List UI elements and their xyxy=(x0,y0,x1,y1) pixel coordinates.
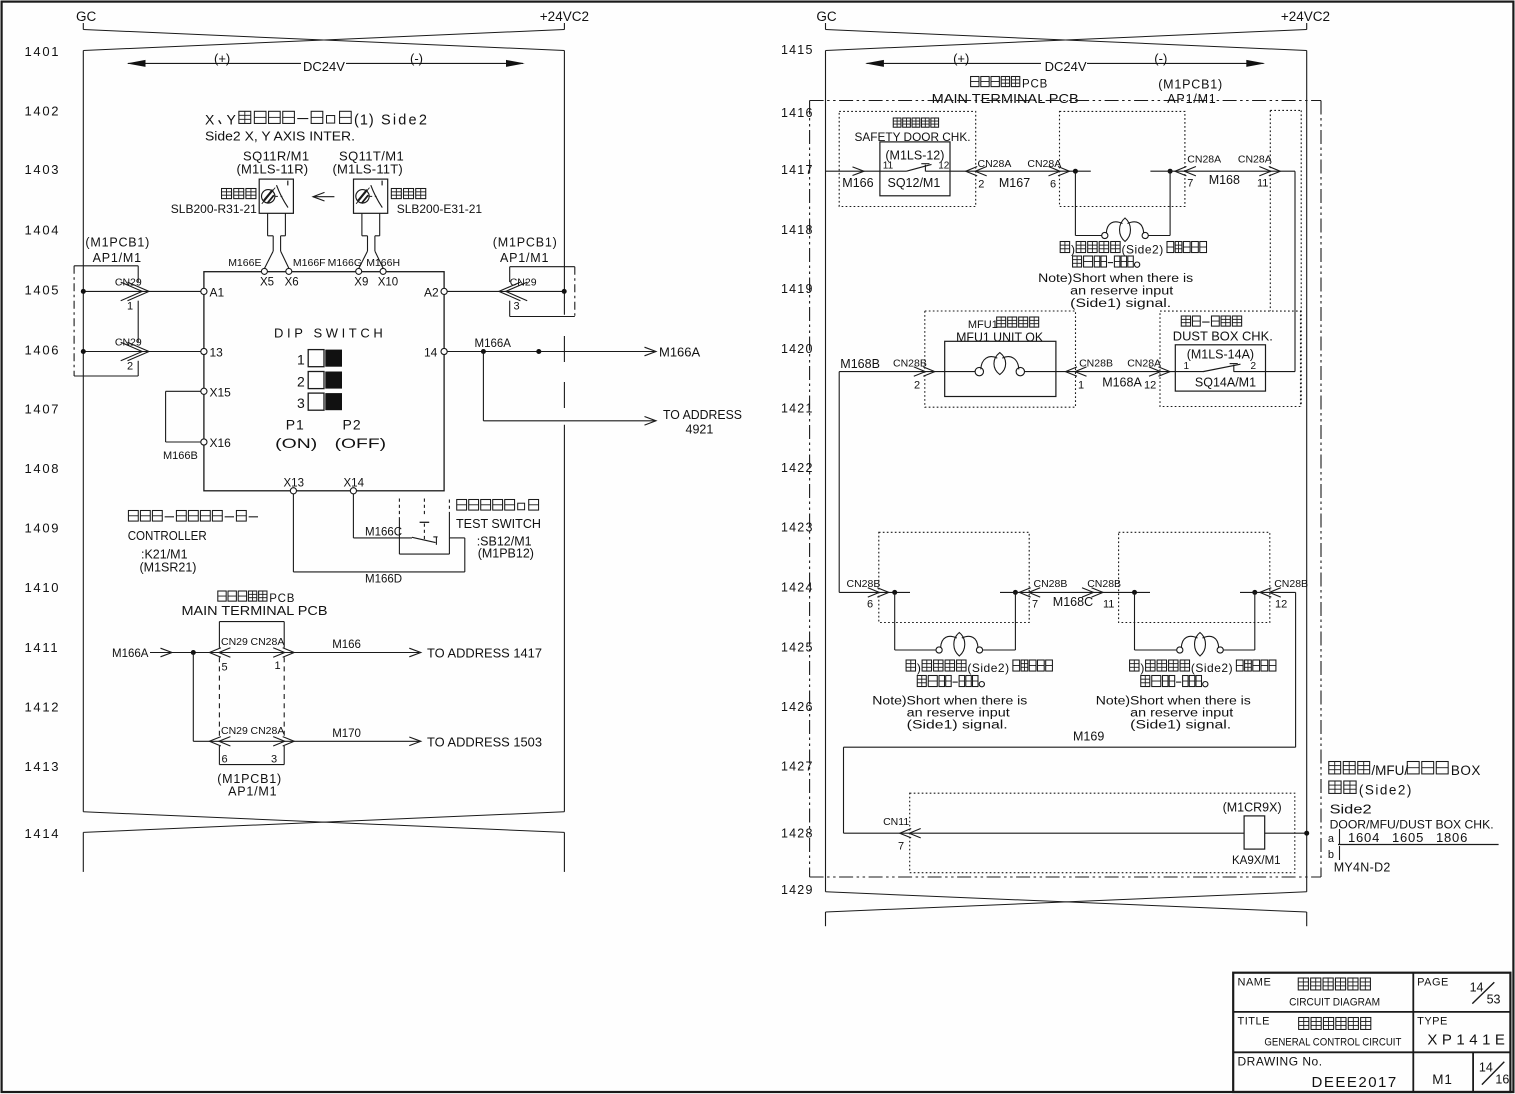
svg-text:CN28B: CN28B xyxy=(893,358,927,370)
svg-text:A1: A1 xyxy=(210,286,225,300)
svg-text:DC24V: DC24V xyxy=(1045,59,1087,74)
svg-text:1605: 1605 xyxy=(1392,830,1424,845)
svg-text:X9: X9 xyxy=(354,277,368,289)
device box reserve input Side2 (dotted, row 1416) xyxy=(1060,111,1185,206)
terminal X13 xyxy=(290,488,296,494)
svg-text:7: 7 xyxy=(1032,599,1038,611)
svg-text:M166B: M166B xyxy=(163,450,198,462)
connector CN28A pin 11 xyxy=(1259,167,1271,176)
svg-text:CN28B: CN28B xyxy=(1274,578,1308,590)
terminal X16 xyxy=(201,439,207,445)
svg-text:Side2 X, Y AXIS INTER.: Side2 X, Y AXIS INTER. xyxy=(205,130,355,144)
svg-text:(Side1) signal.: (Side1) signal. xyxy=(1070,298,1171,310)
wire +24VC2 bus stub (left sheet) xyxy=(563,23,565,30)
svg-text:1425: 1425 xyxy=(781,641,814,655)
device box relay circuit (dotted, row 1428) xyxy=(910,793,1295,873)
connector CN29 pin 1 xyxy=(121,282,143,301)
node reserve A right xyxy=(1013,590,1018,595)
svg-text:X16: X16 xyxy=(210,436,232,450)
terminal X15 xyxy=(201,388,207,394)
svg-text:6: 6 xyxy=(1050,179,1056,191)
svg-text:3: 3 xyxy=(271,754,277,766)
wire GC bus stub (right sheet) xyxy=(825,23,827,30)
svg-text:1: 1 xyxy=(275,660,281,672)
connector CN28B pin 11 xyxy=(1082,588,1094,597)
svg-text:GC: GC xyxy=(816,9,837,24)
svg-text:/MFU/: /MFU/ xyxy=(1371,763,1408,778)
device boundary dotted column right xyxy=(1270,109,1301,111)
svg-text:1404: 1404 xyxy=(25,223,61,238)
svg-text:NAME: NAME xyxy=(1238,977,1272,989)
svg-text:M166F: M166F xyxy=(293,257,326,269)
label test switch (Japanese) xyxy=(457,500,467,511)
wire SQ14A to vertical riser xyxy=(1266,371,1296,373)
connector CN28A pin 2 xyxy=(975,167,987,176)
svg-text:CN28B: CN28B xyxy=(1079,358,1113,370)
junction node row 1411 xyxy=(191,650,196,655)
dip switch 1 xyxy=(308,350,324,367)
svg-text:CIRCUIT DIAGRAM: CIRCUIT DIAGRAM xyxy=(1289,997,1380,1009)
svg-text:P1: P1 xyxy=(286,417,305,433)
node reserve B left xyxy=(1132,590,1137,595)
svg-text:1: 1 xyxy=(297,352,305,368)
svg-text:(+): (+) xyxy=(953,51,969,66)
svg-text:an reserve input: an reserve input xyxy=(1130,708,1234,720)
terminal X5 xyxy=(261,268,267,274)
svg-text:+24VC2: +24VC2 xyxy=(540,9,589,24)
svg-text:X14: X14 xyxy=(344,478,365,490)
svg-text:MY4N-D2: MY4N-D2 xyxy=(1334,861,1391,875)
svg-text:1405: 1405 xyxy=(25,283,61,298)
svg-text:b: b xyxy=(1328,849,1334,861)
connector CN29 pin 6 xyxy=(219,737,231,746)
wire row 1428 to CN11 xyxy=(844,832,910,834)
svg-text:3: 3 xyxy=(297,395,305,411)
svg-text:1: 1 xyxy=(1078,380,1084,392)
wire KA9X to (-) rail xyxy=(1265,832,1307,834)
junction node M166A second xyxy=(536,349,541,354)
wire CN11 to relay coil KA9X xyxy=(910,832,1244,834)
svg-text:SQ14A/M1: SQ14A/M1 xyxy=(1195,376,1256,390)
svg-text:1426: 1426 xyxy=(781,700,814,714)
wire M170 to address 1503 xyxy=(284,740,419,742)
svg-text:12: 12 xyxy=(938,161,950,172)
wire bus crossover bottom (left sheet) xyxy=(83,812,564,833)
svg-text:TEST SWITCH: TEST SWITCH xyxy=(456,517,541,531)
wire rail to A1 (row 1405) xyxy=(83,290,201,292)
wire (-) power rail right (left sheet) with dashed crossing section xyxy=(563,51,565,315)
svg-text:(M1LS-11R): (M1LS-11R) xyxy=(237,162,309,177)
terminal A2 xyxy=(441,288,447,294)
note reserve input block B (Japanese) xyxy=(1130,660,1139,671)
connector CN29 pin 2 xyxy=(121,342,143,361)
svg-text:CN28A: CN28A xyxy=(1027,158,1061,170)
svg-text:7: 7 xyxy=(898,841,904,853)
svg-text:GC: GC xyxy=(76,9,97,24)
wire M169 xyxy=(1295,592,1297,747)
wire bottom continuation stubs (right sheet) xyxy=(825,912,827,926)
svg-text:CN29: CN29 xyxy=(221,636,248,648)
wire SQ12 to reserve connector xyxy=(950,170,1091,172)
device box reserve input B (dotted, row 1423) xyxy=(1119,532,1270,622)
svg-text:(M1PCB1): (M1PCB1) xyxy=(85,236,150,250)
test switch SB12/M1 symbol xyxy=(398,499,400,518)
svg-text:CN28A: CN28A xyxy=(251,636,285,648)
device box MFU1 UNIT OK (dotted) xyxy=(925,311,1076,407)
svg-text:Side2: Side2 xyxy=(1330,803,1372,817)
limit switch SQ12/M1 box xyxy=(880,142,950,196)
svg-text:M166A: M166A xyxy=(112,648,149,660)
svg-text:(M1SR21): (M1SR21) xyxy=(140,561,197,575)
svg-text:1806: 1806 xyxy=(1436,830,1468,845)
svg-text:SLB200-R31-21: SLB200-R31-21 xyxy=(171,202,257,216)
svg-text:2: 2 xyxy=(1251,361,1257,372)
node reserve input right xyxy=(1168,169,1173,174)
svg-text:1421: 1421 xyxy=(781,402,814,416)
svg-text:1401: 1401 xyxy=(25,44,61,59)
svg-text:1408: 1408 xyxy=(25,461,61,476)
connector CN28B pin 2 xyxy=(914,367,926,376)
PCB bracket M1PCB1 left (rows 1405-1406) xyxy=(74,265,138,267)
svg-text:(ON): (ON) xyxy=(275,435,317,451)
connector CN11 pin 7 xyxy=(909,829,921,838)
svg-text:AP1/M1: AP1/M1 xyxy=(1167,92,1216,106)
svg-text:DC24V: DC24V xyxy=(303,59,345,74)
svg-text:TO ADDRESS: TO ADDRESS xyxy=(663,408,742,422)
wire +24VC2 bus stub (right sheet) xyxy=(1306,23,1308,30)
svg-text:AP1/M1: AP1/M1 xyxy=(228,785,277,799)
svg-text:14: 14 xyxy=(1470,981,1484,995)
svg-text:M168A: M168A xyxy=(1102,376,1142,390)
title block frame xyxy=(1233,973,1510,1092)
connector CN28B pin 6 xyxy=(868,588,880,597)
svg-text:(-): (-) xyxy=(1154,51,1167,66)
svg-text:M170: M170 xyxy=(332,728,361,740)
svg-text:XP141E: XP141E xyxy=(1427,1032,1509,1049)
svg-text:12: 12 xyxy=(1275,599,1287,611)
svg-text:1410: 1410 xyxy=(25,580,61,595)
terminal X6 xyxy=(286,268,292,274)
svg-text:1419: 1419 xyxy=(781,282,814,296)
label emitter (Japanese) for SQ11T xyxy=(391,189,401,199)
wire row 1424 left segment xyxy=(839,591,910,593)
wire branch to address 4921 xyxy=(482,352,484,421)
svg-text:11: 11 xyxy=(1257,178,1268,190)
svg-text:(OFF): (OFF) xyxy=(335,435,387,451)
PCB bracket main terminal PCB (rows 1411-1412) xyxy=(219,621,284,623)
wire M168A xyxy=(1076,371,1176,373)
svg-text:X5: X5 xyxy=(260,277,274,289)
svg-text:1407: 1407 xyxy=(25,402,61,417)
connector CN28A pin 6 xyxy=(1049,167,1061,176)
svg-text:Note)Short when there is: Note)Short when there is xyxy=(872,696,1027,708)
svg-text:14: 14 xyxy=(424,346,438,360)
svg-text:M166D: M166D xyxy=(365,574,402,586)
wire bus crossover bottom (right sheet) xyxy=(826,892,1307,912)
label safety door check (Japanese) xyxy=(893,118,901,127)
svg-text:CN29: CN29 xyxy=(510,277,537,289)
svg-text:11: 11 xyxy=(883,161,894,172)
shorting jumper B row 1425 xyxy=(1134,592,1136,650)
connector plug of SQ11T xyxy=(361,213,363,236)
svg-text:Note)Short when there is: Note)Short when there is xyxy=(1096,696,1251,708)
svg-text:M166A: M166A xyxy=(659,345,701,360)
svg-text:1412: 1412 xyxy=(25,700,61,715)
connector CN28A pin 3 xyxy=(273,737,285,746)
device box SAFETY DOOR CHK (dotted) xyxy=(839,111,976,206)
svg-text:53: 53 xyxy=(1487,993,1501,1007)
connector CN28B pin 7 xyxy=(1029,588,1041,597)
svg-text:1415: 1415 xyxy=(781,43,814,57)
svg-text:1403: 1403 xyxy=(25,162,61,177)
svg-text:2: 2 xyxy=(297,374,305,390)
MFU1 connector unit box xyxy=(945,341,1056,396)
terminal X14 xyxy=(350,488,356,494)
connector CN28B pin 12 xyxy=(1269,588,1281,597)
svg-text:M166G: M166G xyxy=(328,257,362,269)
svg-text:2: 2 xyxy=(127,361,133,373)
svg-text:GENERAL CONTROL CIRCUIT: GENERAL CONTROL CIRCUIT xyxy=(1264,1037,1401,1049)
svg-text:1: 1 xyxy=(127,301,133,313)
wire M168B vertical down to row 1424 xyxy=(838,372,840,593)
SQ12 NC contact xyxy=(880,170,907,172)
svg-text:SQ12/M1: SQ12/M1 xyxy=(888,176,941,190)
svg-text:(M1CR9X): (M1CR9X) xyxy=(1223,801,1282,815)
svg-text:1414: 1414 xyxy=(25,826,61,841)
svg-text:1417: 1417 xyxy=(781,163,814,177)
DC24V supply range arrow (left sheet) xyxy=(128,62,301,64)
svg-text:MAIN TERMINAL PCB: MAIN TERMINAL PCB xyxy=(182,604,328,618)
wire (-) power rail (right sheet) xyxy=(1306,51,1308,892)
svg-text:TITLE: TITLE xyxy=(1238,1016,1270,1028)
device box reserve input A (dotted, row 1423) xyxy=(879,532,1029,622)
wire bus crossover top (right sheet) xyxy=(826,30,1307,51)
svg-text:X10: X10 xyxy=(378,277,398,289)
svg-text:1402: 1402 xyxy=(25,104,61,119)
svg-text:1427: 1427 xyxy=(781,760,814,774)
svg-text:(M1PCB1): (M1PCB1) xyxy=(493,236,558,250)
svg-text:2: 2 xyxy=(978,179,984,191)
dip switch 3 xyxy=(308,393,324,410)
svg-text:BOX: BOX xyxy=(1451,763,1481,778)
svg-text:M167: M167 xyxy=(999,176,1030,190)
DC24V supply range arrow (right sheet) xyxy=(867,62,1042,64)
wire GC bus stub (left sheet) xyxy=(82,23,84,30)
junction node on (+) rail row 1405 xyxy=(81,289,86,294)
wire M168 to CN28A-11 xyxy=(1150,170,1295,172)
connector CN28A pin 1 xyxy=(273,648,285,657)
note reserve input row 1418 (Japanese) xyxy=(1060,242,1069,253)
svg-text:MFU1 UNIT OK: MFU1 UNIT OK xyxy=(956,331,1044,345)
svg-text:1: 1 xyxy=(1184,361,1190,372)
svg-text:(+): (+) xyxy=(214,51,230,66)
svg-text:M166: M166 xyxy=(332,639,361,651)
svg-text:1411: 1411 xyxy=(25,640,60,655)
wire down from CN28A-11 to SQ14A xyxy=(1294,171,1296,371)
svg-text:TO ADDRESS 1417: TO ADDRESS 1417 xyxy=(427,647,542,661)
svg-text:X6: X6 xyxy=(285,277,299,289)
svg-text:AP1/M1: AP1/M1 xyxy=(93,251,142,265)
terminal X10 xyxy=(380,268,386,274)
wire bottom continuation stubs (left sheet) xyxy=(82,832,84,872)
svg-text:1420: 1420 xyxy=(781,342,814,356)
svg-text::K21/M1: :K21/M1 xyxy=(141,548,188,562)
node reserve B right xyxy=(1252,590,1257,595)
svg-text:(M1LS-12): (M1LS-12) xyxy=(885,149,944,163)
svg-text:(1): (1) xyxy=(354,113,375,129)
svg-text:KA9X/M1: KA9X/M1 xyxy=(1232,855,1281,867)
svg-text:): ) xyxy=(1140,661,1144,675)
svg-text:CN28B: CN28B xyxy=(1034,578,1068,590)
PCB boundary chain rectangle (right sheet) xyxy=(810,100,1321,102)
svg-text:DEEE2017: DEEE2017 xyxy=(1312,1074,1398,1091)
svg-text:CN11: CN11 xyxy=(883,816,909,828)
svg-text:(Side2): (Side2) xyxy=(1191,661,1233,675)
connector CN28A pin 7 xyxy=(1184,167,1196,176)
svg-text:(-): (-) xyxy=(410,51,423,66)
sensor SQ11T/M1 (emitter) symbol xyxy=(354,179,388,213)
svg-text:SLB200-E31-21: SLB200-E31-21 xyxy=(397,202,483,216)
junction node on (-) rail row 1405 xyxy=(562,289,567,294)
svg-text:CN28A: CN28A xyxy=(251,725,285,737)
connector plug of SQ11R xyxy=(267,213,269,236)
svg-text:DIP SWITCH: DIP SWITCH xyxy=(274,326,386,341)
SQ14A NC contact xyxy=(1175,371,1203,373)
test switch enclosure loop xyxy=(398,538,400,554)
node reserve A left xyxy=(892,590,897,595)
svg-text:1416: 1416 xyxy=(781,106,814,120)
label dust box check (Japanese) xyxy=(1181,316,1190,326)
label main terminal PCB (Japanese) left sheet xyxy=(218,591,226,601)
wire M166B loop X15-X16 xyxy=(166,390,201,392)
svg-text:): ) xyxy=(1071,243,1075,257)
svg-text:(Side2): (Side2) xyxy=(1359,783,1413,798)
shorting jumper A row 1425 xyxy=(894,592,896,650)
svg-text:CN29: CN29 xyxy=(221,725,248,737)
svg-text:4921: 4921 xyxy=(686,423,714,437)
svg-text:(M1PCB1): (M1PCB1) xyxy=(1158,78,1223,92)
wire M166 entry from (+) rail (row 1417) xyxy=(826,170,880,172)
svg-text:M168C: M168C xyxy=(1053,595,1093,609)
svg-text:(M1PB12): (M1PB12) xyxy=(478,547,534,561)
svg-text:CN29: CN29 xyxy=(115,277,142,289)
svg-text:TO ADDRESS 1503: TO ADDRESS 1503 xyxy=(427,736,542,750)
svg-text:Y: Y xyxy=(227,112,237,128)
svg-text:(M1LS-14A): (M1LS-14A) xyxy=(1187,348,1254,362)
svg-text:7: 7 xyxy=(1187,178,1193,190)
svg-text:CN28A: CN28A xyxy=(978,158,1012,170)
junction node on (-) rail row 1428 xyxy=(1304,831,1309,836)
sensor SQ11R/M1 (receiver) symbol xyxy=(259,179,293,213)
svg-text:M166E: M166E xyxy=(228,257,261,269)
limit switch SQ14A/M1 box xyxy=(1175,345,1265,391)
svg-text:M166H: M166H xyxy=(366,257,400,269)
svg-text:M166: M166 xyxy=(842,176,873,190)
light beam arrow between sensors xyxy=(313,196,334,198)
svg-text:5: 5 xyxy=(222,662,228,674)
svg-text:1422: 1422 xyxy=(781,461,814,475)
relay coil KA9X/M1 xyxy=(1244,816,1265,849)
svg-text:(Side2): (Side2) xyxy=(1122,243,1164,257)
svg-text:CN28B: CN28B xyxy=(847,578,881,590)
svg-text:12: 12 xyxy=(1144,380,1156,392)
svg-text:2: 2 xyxy=(914,380,920,392)
node reserve input left xyxy=(1073,169,1078,174)
junction node M166A branch xyxy=(481,349,486,354)
svg-text:1428: 1428 xyxy=(781,827,814,841)
label main terminal PCB (Japanese) right sheet xyxy=(971,77,979,87)
wire M166 to address 1417 xyxy=(284,652,419,654)
svg-text:M169: M169 xyxy=(1073,730,1104,744)
shorting jumper row 1418 xyxy=(1074,171,1076,235)
terminal 13 xyxy=(201,348,207,354)
svg-text:M1: M1 xyxy=(1432,1072,1453,1087)
wire row 1424 right segment xyxy=(1240,591,1296,593)
svg-text:16: 16 xyxy=(1495,1073,1509,1087)
terminal 14 xyxy=(441,348,447,354)
junction node on (+) rail row 1406 xyxy=(81,349,86,354)
svg-text:M168: M168 xyxy=(1209,173,1240,187)
svg-text:DUST BOX CHK.: DUST BOX CHK. xyxy=(1173,330,1273,344)
svg-text:PAGE: PAGE xyxy=(1417,977,1449,989)
connector CN28B pin 1 xyxy=(1075,367,1087,376)
svg-text:1604: 1604 xyxy=(1348,830,1380,845)
svg-text:(Side2): (Side2) xyxy=(967,661,1009,675)
svg-text:13: 13 xyxy=(210,346,224,360)
svg-text:1423: 1423 xyxy=(781,521,814,535)
svg-text:an reserve input: an reserve input xyxy=(1070,286,1174,298)
svg-text:1429: 1429 xyxy=(781,883,814,897)
wire through PCB row 1411 xyxy=(219,652,284,654)
terminal X9 xyxy=(356,268,362,274)
wire branch down to row 1412 xyxy=(192,653,194,742)
svg-text:1424: 1424 xyxy=(781,581,814,595)
connector CN28A pin 12 xyxy=(1149,367,1161,376)
wire from X13 down (M166D run) xyxy=(292,494,294,572)
svg-text:CN28B: CN28B xyxy=(1087,578,1121,590)
svg-text:CONTROLLER: CONTROLLER xyxy=(128,528,207,543)
svg-text:M168B: M168B xyxy=(840,357,880,371)
wire M166A from terminal 14 (row 1406) xyxy=(447,351,654,353)
svg-text:): ) xyxy=(917,661,921,675)
wire (+) power rail left (left sheet) xyxy=(82,51,84,812)
svg-text:an reserve input: an reserve input xyxy=(907,708,1011,720)
connector CN29 pin 3 xyxy=(506,282,528,301)
svg-text:CN28A: CN28A xyxy=(1187,154,1221,166)
svg-text:(Side1) signal.: (Side1) signal. xyxy=(907,720,1008,732)
wire bus crossover top (left sheet) xyxy=(83,30,564,51)
MFU1 shorting jumper symbol xyxy=(945,371,976,373)
wire A2 to (-) rail (row 1405) xyxy=(447,290,564,292)
svg-text:CN28A: CN28A xyxy=(1238,154,1272,166)
wire (+) power rail (right sheet) xyxy=(825,51,827,892)
wire row 1424 middle segment M168C xyxy=(1000,591,1150,593)
dip switch 2 xyxy=(308,372,324,389)
svg-text:MFU1: MFU1 xyxy=(968,319,998,331)
svg-text:Note)Short when there is: Note)Short when there is xyxy=(1038,273,1193,285)
svg-text:X: X xyxy=(205,112,215,128)
label receiver (Japanese) for SQ11R xyxy=(222,189,232,199)
svg-text:6: 6 xyxy=(222,754,228,766)
svg-text:11: 11 xyxy=(1103,599,1114,611)
svg-text:1409: 1409 xyxy=(25,521,61,536)
side note: safety door / MFU / dust box check (Japanese) xyxy=(1329,762,1341,774)
svg-text:M166C: M166C xyxy=(365,527,402,539)
svg-text:PCB: PCB xyxy=(1022,79,1048,91)
svg-text:(M1LS-11T): (M1LS-11T) xyxy=(333,162,403,177)
svg-text:3: 3 xyxy=(514,301,520,313)
PCB bracket M1PCB1 right (row 1405) xyxy=(510,266,575,268)
